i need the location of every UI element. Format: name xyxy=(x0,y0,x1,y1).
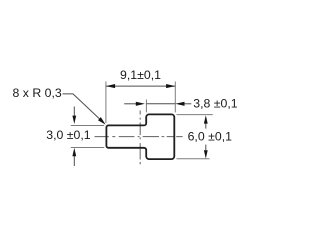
dimension line 9,1 with outward arrowheads xyxy=(106,84,175,88)
dimension arrows 3,0 (outside, vertical at x=74.3) xyxy=(72,107,76,167)
extension line, step (above part) xyxy=(145,100,147,113)
dimension arrows 6,0 (outside, vertical at x=205.8) xyxy=(204,115,208,158)
svg-text:3,0 ±0,1: 3,0 ±0,1 xyxy=(46,128,91,142)
svg-text:6,0 ±0,1: 6,0 ±0,1 xyxy=(188,130,233,144)
dimension line 3,8 (arrows outside) xyxy=(124,102,191,106)
leader 8 x R 0,3 with arrowhead at corner xyxy=(63,94,106,125)
svg-text:9,1±0,1: 9,1±0,1 xyxy=(120,68,161,82)
part body fill (stepped plug, side view) xyxy=(106,114,174,159)
extension line, small-step bottom, to left xyxy=(71,147,104,149)
vertical centerline (dash-dot) xyxy=(139,111,141,165)
extension line, big-dia bottom, to right xyxy=(177,158,210,160)
svg-text:8 x R 0,3: 8 x R 0,3 xyxy=(13,86,62,100)
extension line, overall-length left (above part) xyxy=(105,82,107,124)
part outline stroke (stepped plug) xyxy=(106,114,174,159)
svg-text:3,8 ±0,1: 3,8 ±0,1 xyxy=(193,96,238,110)
extension line, big-dia top, to right xyxy=(177,114,213,116)
extension line, right end (above part) xyxy=(174,82,176,113)
extension line, small-step top, to left xyxy=(71,125,104,127)
horizontal centerline (dash-dot) with leader stubs xyxy=(95,136,183,138)
